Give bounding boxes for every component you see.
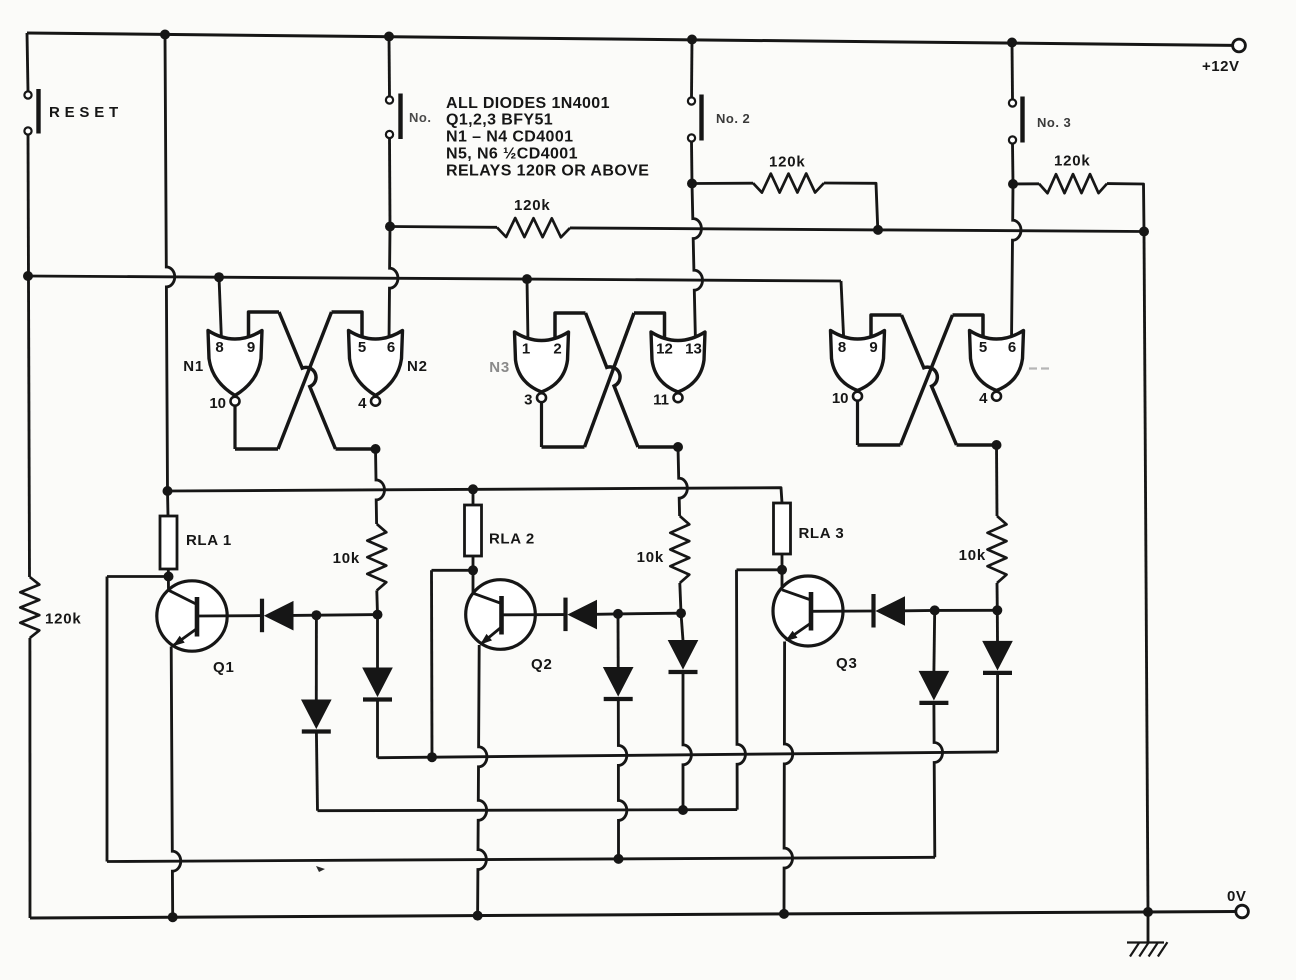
resistor 10k (stage 2) xyxy=(670,516,689,583)
diode D8 (Q3-base to H3, 1N4001) xyxy=(932,610,936,671)
wire N6 output to 10k xyxy=(995,445,998,516)
wire relay +12V supply line (y~490) xyxy=(168,488,783,503)
wire N1 pin-out cross-couple (left hook + diagonal) xyxy=(249,312,280,341)
wire N4 output to 10k (hops relay supply line) xyxy=(678,447,687,516)
relay coil RLA 1 xyxy=(166,491,169,516)
wire 120k R1 to common pulldown line xyxy=(570,228,878,230)
node H1 / stage2 tap junction xyxy=(427,752,437,762)
terminal +12V xyxy=(1233,39,1246,52)
wire rail to button No.1 xyxy=(388,37,391,97)
pushbutton No. 1 xyxy=(386,96,393,103)
wire base node to 10k node xyxy=(935,609,998,612)
node relay supply left (RLA1 top) xyxy=(163,486,173,496)
node D6 / H3 junction xyxy=(614,854,624,864)
resistor 120k R3 (button3 pull-down) xyxy=(1013,182,1039,185)
svg-text:9: 9 xyxy=(869,339,877,356)
svg-text:N1 – N4 CD4001: N1 – N4 CD4001 xyxy=(446,129,573,146)
node button1 / 120k R1 xyxy=(385,222,395,232)
wire interlock line H2 (Q3 collector line) xyxy=(318,810,738,811)
wire Q2 base xyxy=(502,613,566,616)
svg-text:120k: 120k xyxy=(769,154,806,171)
svg-text:10: 10 xyxy=(832,390,849,407)
wire D5 to interlock line H1 xyxy=(376,700,379,758)
wire N1 output down xyxy=(233,405,236,449)
node N4 output xyxy=(673,442,683,452)
svg-text:1: 1 xyxy=(522,341,530,358)
svg-text:120k: 120k xyxy=(514,197,551,214)
NOR gate N6 xyxy=(970,331,1024,391)
node stage1 10k bottom / D5 junction xyxy=(373,610,383,620)
svg-text:4: 4 xyxy=(979,390,988,407)
relay coil RLA 3 xyxy=(774,503,791,554)
diode D2 (Q2 base, 1N4001) xyxy=(563,598,567,632)
resistor 120k (reset pull-down) xyxy=(20,577,39,638)
node D7 / H2 junction xyxy=(678,805,688,815)
svg-text:8: 8 xyxy=(838,339,846,356)
wire Q3 emitter to 0V rail (hops H1,H3) xyxy=(784,642,793,914)
diode D3 (Q3 base, 1N4001) xyxy=(871,594,875,628)
svg-text:N1: N1 xyxy=(183,358,204,375)
svg-text:ALL DIODES 1N4001: ALL DIODES 1N4001 xyxy=(446,95,610,112)
svg-text:N2: N2 xyxy=(407,358,428,375)
svg-text:2: 2 xyxy=(553,341,561,358)
svg-text:12: 12 xyxy=(656,341,673,358)
diode D1 (Q1 base, 1N4001) xyxy=(260,599,264,633)
node reset to N3 pin1 xyxy=(522,274,532,284)
wire rail to button No.2 xyxy=(690,40,693,98)
wire button3 node to N6 pin 6 (hops 120k chain) xyxy=(1012,184,1021,342)
node ground junction / 0V rail xyxy=(1143,907,1153,917)
svg-text:0V: 0V xyxy=(1227,888,1246,905)
node Q1 base / D4 junction xyxy=(311,610,321,620)
svg-text:RESET: RESET xyxy=(49,104,123,121)
node Q2 base / D6 junction xyxy=(613,609,623,619)
wire RESET to reset line and 120k xyxy=(28,135,30,577)
svg-text:N5, N6 ½CD4001: N5, N6 ½CD4001 xyxy=(446,146,578,163)
node top rail junction B (x=389) xyxy=(384,32,394,42)
wire Q2 emitter to 0V rail (hops H1,H2,H3) xyxy=(478,645,487,916)
wire button No.1 to 120k node xyxy=(388,138,391,226)
svg-text:120k: 120k xyxy=(1054,153,1091,170)
node pulldown junction (x=878) xyxy=(873,225,883,235)
ground symbol xyxy=(1147,912,1150,942)
wire +12V dropper to relay supply line (hops reset line) xyxy=(165,35,175,492)
wire D2 to base node xyxy=(597,612,619,615)
wire button No.3 to 120k node xyxy=(1011,144,1014,184)
svg-text:11: 11 xyxy=(653,392,669,409)
wire D9 down to interlock line H1 right end xyxy=(996,673,999,752)
svg-text:3: 3 xyxy=(524,392,532,409)
svg-text:5: 5 xyxy=(979,339,987,356)
svg-text:RLA 1: RLA 1 xyxy=(186,532,232,549)
wire +12V top supply rail xyxy=(27,33,1233,45)
node top rail junction A (x=165) xyxy=(160,30,170,40)
wire Q3 base xyxy=(811,610,874,613)
wire collector tap stage2 (to interlock line H1) xyxy=(432,569,474,572)
wire reset line corner down to N5 pin 8 xyxy=(841,281,844,346)
svg-text:6: 6 xyxy=(387,339,395,356)
svg-text:+12V: +12V xyxy=(1202,58,1239,75)
svg-text:No.: No. xyxy=(409,110,431,125)
svg-text:Q3: Q3 xyxy=(836,655,858,672)
svg-text:Q1,2,3 BFY51: Q1,2,3 BFY51 xyxy=(446,112,553,129)
wire N5 output down xyxy=(856,400,859,445)
node reset to N1 pin8 xyxy=(214,272,224,282)
transistor Q3 (BFY51) xyxy=(773,576,843,646)
node button3 / 120k R3 xyxy=(1008,179,1018,189)
node button2 / 120k R2 xyxy=(687,179,697,189)
diode D6 (Q2-base to H3, 1N4001) xyxy=(617,614,620,668)
node Q3 emitter / 0V rail xyxy=(779,909,789,919)
wire rail to button No.3 xyxy=(1011,43,1014,100)
scan blemish speck xyxy=(316,866,325,872)
resistor 120k R1 (button1 pull-down) xyxy=(390,225,497,229)
svg-text:No. 3: No. 3 xyxy=(1037,115,1071,130)
diode D4 (Q1-base to H2, 1N4001) xyxy=(315,615,318,700)
node Q2 collector / interlock tap xyxy=(468,565,478,575)
wire N2 pin-out cross-couple (right hook + diagonal) xyxy=(332,312,363,341)
pushbutton No. 3 xyxy=(1009,99,1016,106)
wire base node to 10k node xyxy=(316,613,377,616)
terminal 0V xyxy=(1236,905,1249,918)
NOR gate N3 xyxy=(515,332,569,392)
wire reset line (y~278) xyxy=(28,276,841,281)
svg-text:6: 6 xyxy=(1008,339,1016,356)
wire RLA1 to Q1 collector xyxy=(167,569,170,590)
node Q3 base / D8 junction xyxy=(930,605,940,615)
svg-text:RLA 3: RLA 3 xyxy=(799,525,845,542)
node RLA2 top xyxy=(468,484,478,494)
diode D5 (Q1-base to H1, 1N4001) xyxy=(376,615,379,668)
wire reset line to N3 pin 1 xyxy=(527,279,528,342)
svg-text:10k: 10k xyxy=(333,550,360,567)
wire left rail drop to RESET xyxy=(27,33,28,91)
wire D6 to interlock line H3 (hops H1,H2) xyxy=(618,699,627,859)
diode D7 (Q2-base to H2, 1N4001) xyxy=(681,613,683,640)
svg-text:N3: N3 xyxy=(489,359,510,376)
wire button1 node to N2 pin 6 (hops reset line) xyxy=(389,227,398,342)
wire N3 pin-out cross-couple (left hook + diagonal) xyxy=(555,313,586,342)
svg-text:No. 2: No. 2 xyxy=(716,111,750,126)
wire button No.2 to 120k node xyxy=(690,142,693,184)
faint N6 label remnant xyxy=(1029,367,1037,369)
pushbutton No. 2 xyxy=(688,97,695,104)
wire D7 to interlock line H2 (hops H1) xyxy=(683,672,691,810)
wire RLA3 to Q3 collector xyxy=(781,554,784,590)
node Q1 collector / interlock tap xyxy=(164,572,174,582)
wire 120k to 0V rail xyxy=(28,638,31,918)
node Q2 emitter / 0V rail xyxy=(473,911,483,921)
NOR gate N2 xyxy=(349,331,403,396)
svg-text:RLA 2: RLA 2 xyxy=(489,531,535,548)
wire interlock line H3 (Q1 collector line) xyxy=(107,857,935,861)
wire pulldown line to right vertical xyxy=(878,230,1144,232)
wire interlock line H1 (Q2 collector line) xyxy=(378,752,998,758)
wire D3 to base node xyxy=(905,609,935,612)
node N6 output xyxy=(992,440,1002,450)
node Q3 collector / interlock tap xyxy=(777,565,787,575)
svg-text:8: 8 xyxy=(215,339,223,356)
node stage2 10k bottom / D7 junction xyxy=(676,608,686,618)
svg-text:4: 4 xyxy=(358,395,367,412)
svg-text:RELAYS 120R OR ABOVE: RELAYS 120R OR ABOVE xyxy=(446,163,649,180)
svg-text:5: 5 xyxy=(358,339,366,356)
svg-text:10: 10 xyxy=(209,395,226,412)
resistor 10k (stage 1) xyxy=(367,524,386,591)
wire N5 pin-out cross-couple (left hook + diagonal) xyxy=(871,315,902,341)
wire Q1 emitter to 0V rail (hops interlock line H3) xyxy=(171,647,181,918)
node reset-line left junction xyxy=(23,271,33,281)
diode D9 (Q3-base to H1, 1N4001) xyxy=(996,610,999,641)
wire collector tap stage1 (to interlock line H3) xyxy=(107,575,169,578)
wire reset line to N1 pin 8 xyxy=(219,277,222,341)
svg-text:Q2: Q2 xyxy=(531,656,553,673)
svg-text:13: 13 xyxy=(685,341,702,358)
wire N2 output to 10k (hops relay supply line) xyxy=(376,449,385,524)
wire D8 to interlock line H3 (hops H1) xyxy=(934,703,943,857)
node top rail junction C (x=692) xyxy=(687,35,697,45)
svg-text:10k: 10k xyxy=(637,549,664,566)
wire Q1 base xyxy=(197,614,262,617)
wire 0V bottom rail xyxy=(30,912,1236,919)
wire D1 to base node xyxy=(293,614,316,617)
wire button2 node to N4 pin 13 (hops 120k chain + reset line) xyxy=(692,184,703,343)
svg-text:Q1: Q1 xyxy=(213,659,235,676)
node pulldown junction (x=1144) xyxy=(1139,227,1149,237)
wire N4 pin-out cross-couple (right hook + diagonal) xyxy=(634,313,665,342)
wire N3 output down xyxy=(540,402,543,447)
svg-text:9: 9 xyxy=(247,339,255,356)
svg-text:120k: 120k xyxy=(45,611,82,628)
node N2 output xyxy=(371,444,381,454)
resistor 120k R2 (button2 pull-down) xyxy=(692,182,753,185)
NOR gate N5 xyxy=(831,331,885,391)
transistor Q2 (BFY51) xyxy=(466,580,536,650)
wire base node to 10k node xyxy=(618,612,681,616)
svg-text:10k: 10k xyxy=(959,547,986,564)
wire N6 pin-out cross-couple (right hook + diagonal) xyxy=(953,315,984,341)
wire RLA2 to Q2 collector xyxy=(472,556,475,593)
pushbutton RESET xyxy=(24,91,31,98)
wire right vertical pulldown return to 0V xyxy=(1144,232,1148,912)
transistor Q1 (BFY51) xyxy=(157,581,227,651)
NOR gate N4 xyxy=(651,332,705,392)
wire stage3 tap vertical (hops H1) to H2 right end xyxy=(737,570,746,810)
resistor 10k (stage 3) xyxy=(988,516,1007,583)
wire collector tap stage3 (to interlock line H2) xyxy=(737,568,783,571)
node top rail junction D (x=1012) xyxy=(1007,38,1017,48)
wire D4 to interlock line H2 xyxy=(316,732,317,811)
relay coil RLA 2 xyxy=(472,489,475,505)
node Q1 emitter / 0V rail xyxy=(168,912,178,922)
NOR gate N1 xyxy=(208,331,262,396)
node stage3 10k bottom / D9 junction xyxy=(992,605,1002,615)
